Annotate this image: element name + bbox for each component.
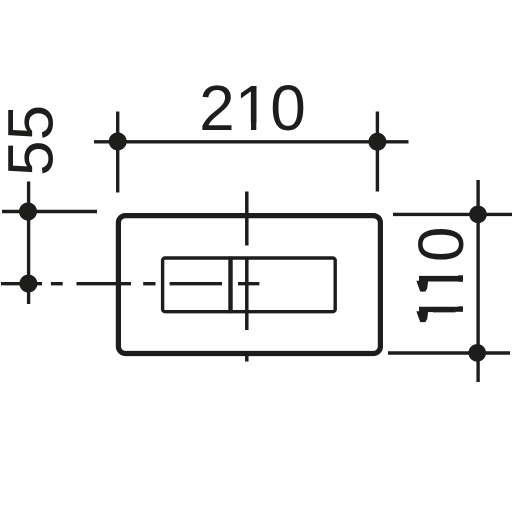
endpoint dot top of 110: [469, 206, 487, 224]
witness tick right of 210: [376, 112, 379, 192]
svg-text:210: 210: [199, 72, 306, 144]
endpoint dot right of 210: [368, 133, 386, 151]
endpoint dot left of 210: [109, 132, 127, 150]
vertical centerline dash middle: [245, 257, 249, 330]
witness tick top of 55: [2, 210, 97, 213]
horizontal centerline solid stub through bottom dot: [1, 282, 42, 285]
button panel outline: [163, 258, 336, 312]
horizontal centerline dash 4 inside left button: [170, 282, 222, 285]
horizontal centerline dash 3 inside plate: [143, 282, 155, 285]
endpoint dot bottom of 110: [468, 344, 486, 362]
horizontal centerline dash 1: [51, 282, 63, 285]
horizontal centerline tick at center cross: [238, 282, 259, 285]
endpoint dot top of 55: [19, 203, 37, 221]
witness tick top of 110: [393, 213, 512, 216]
dimension line 55: [27, 182, 30, 305]
witness tick left of 210: [116, 112, 119, 193]
flush plate outline: [118, 216, 380, 354]
endpoint dot bottom of 55: [19, 275, 37, 293]
witness tick bottom of 110: [388, 351, 510, 354]
horizontal centerline dash 2 crossing plate edge: [77, 282, 132, 285]
button divider line: [228, 256, 232, 313]
vertical centerline dash bottom: [245, 352, 249, 362]
dimension line 110: [476, 180, 479, 382]
dimension line 210: [94, 140, 409, 143]
vertical centerline dash top: [245, 192, 249, 246]
svg-text:55: 55: [0, 105, 67, 176]
